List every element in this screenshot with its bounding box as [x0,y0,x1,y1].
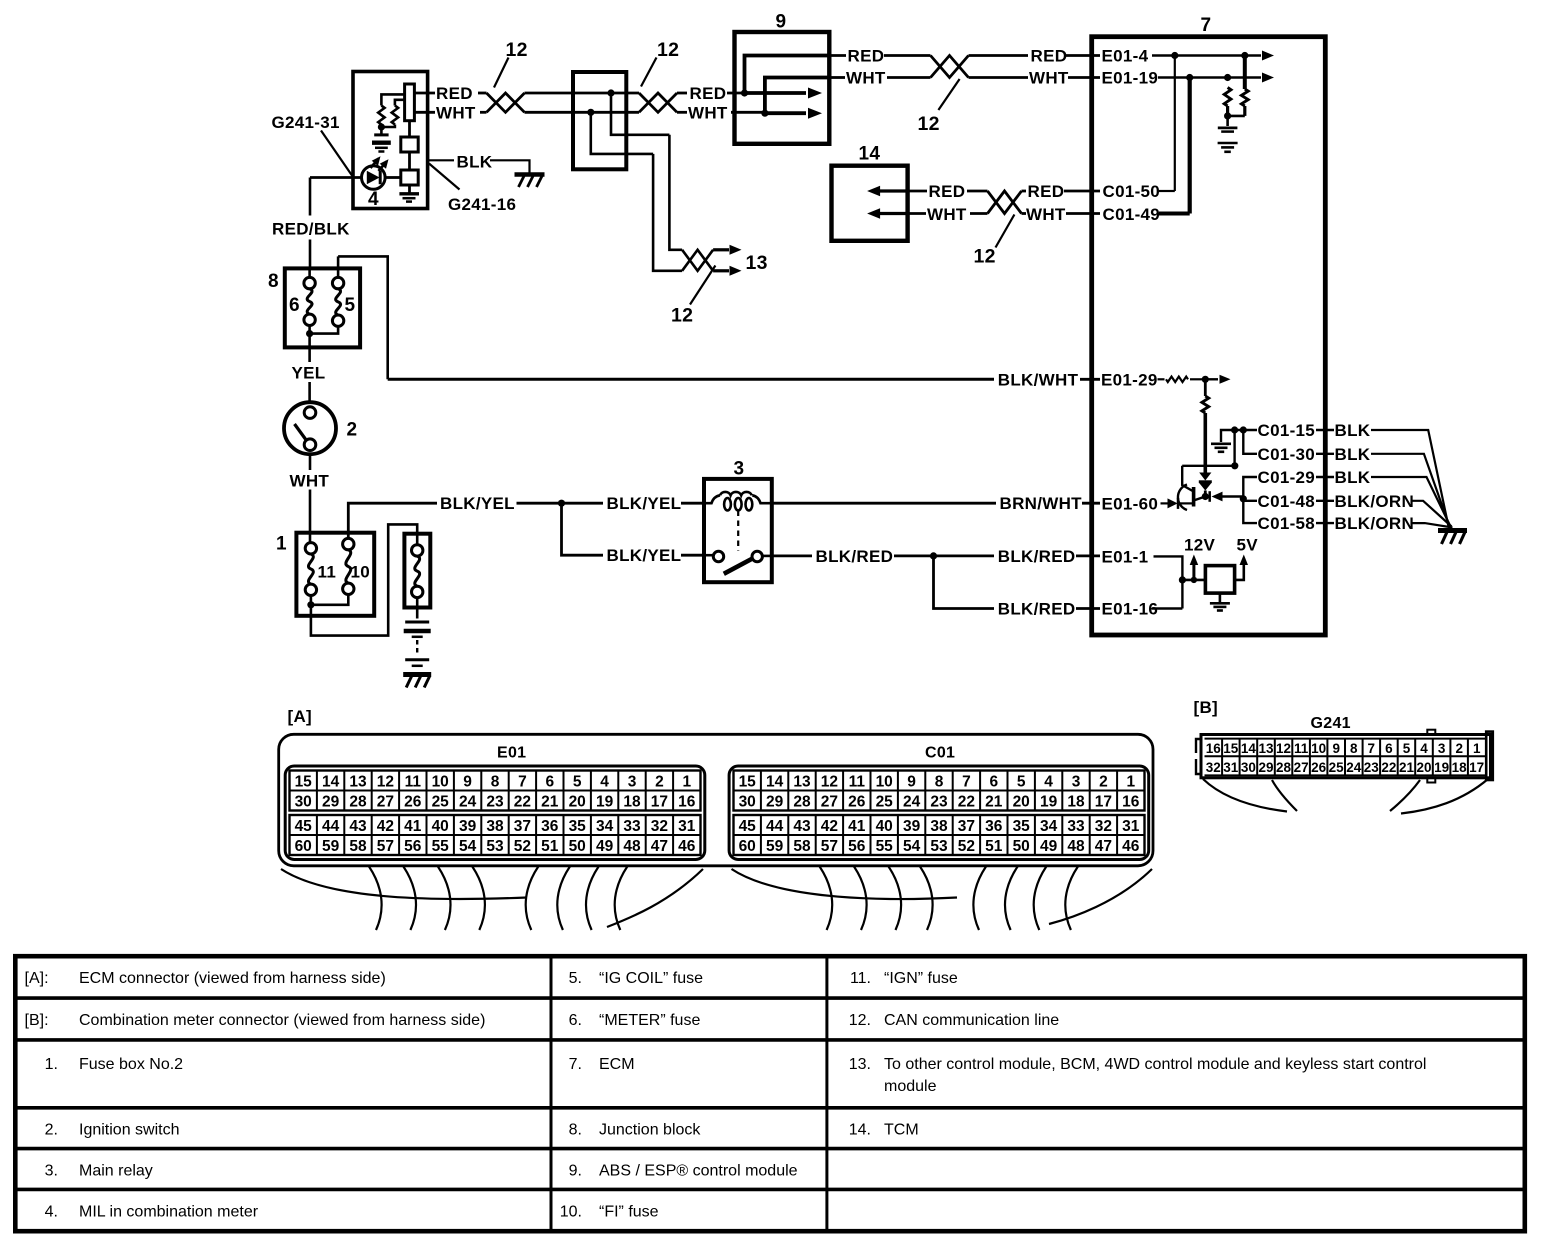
svg-text:BLK/WHT: BLK/WHT [998,370,1079,389]
wire LED to square [385,176,401,179]
wire E01-19 internal [1158,74,1261,81]
resistor meter R-right [392,106,398,125]
svg-text:51: 51 [541,838,559,855]
fuse 10 [343,538,354,594]
svg-text:ECM: ECM [599,1056,635,1073]
ground chassis fuse box [403,675,431,688]
diode above transistor [1199,473,1212,497]
wire bar to lamp resistor squares [408,121,411,137]
wire E01-4 to C01-50 [1174,56,1176,192]
label G241-16 [448,195,516,214]
wire WHT meter to twist [480,111,487,114]
wire RED/BLK [309,178,312,269]
svg-text:RED: RED [436,84,473,103]
svg-text:WHT: WHT [688,103,728,122]
svg-text:13: 13 [793,774,811,791]
wire junction to twist 13 upper [611,93,669,135]
svg-text:2: 2 [655,774,664,791]
wire BLK/RED from relay [772,555,812,558]
resistor CAN term right [1241,56,1248,116]
svg-text:19: 19 [596,794,614,811]
wire BLK/YEL from fuse 10 [348,503,437,539]
pointer G241-31 [321,131,352,176]
svg-text:[A]:: [A]: [25,970,49,987]
svg-text:49: 49 [1040,838,1058,855]
svg-text:3.: 3. [45,1163,58,1180]
pin C01-49 [1103,205,1161,224]
svg-text:“METER” fuse: “METER” fuse [599,1012,700,1029]
label BLK/RED 2 [998,547,1076,566]
label [B] [1194,698,1219,717]
wire RED TCM stub [908,190,927,193]
label G241-31 [272,113,340,132]
svg-text:BLK/YEL: BLK/YEL [607,494,682,513]
label C01 [925,745,955,762]
svg-text:52: 52 [514,838,531,855]
arrow 12V [1190,555,1199,584]
svg-text:17: 17 [1095,794,1112,811]
svg-text:32: 32 [651,818,668,835]
svg-text:24: 24 [903,794,921,811]
svg-text:“IGN” fuse: “IGN” fuse [884,970,958,987]
svg-text:36: 36 [985,818,1003,835]
svg-text:53: 53 [486,838,504,855]
svg-text:24: 24 [459,794,477,811]
svg-text:Combination meter connector (v: Combination meter connector (viewed from… [79,1012,485,1029]
wire E01-19 to C01-49 [1188,78,1192,214]
ECM connector outline [A] [279,734,1153,866]
svg-text:47: 47 [1095,838,1112,855]
svg-text:27: 27 [821,794,838,811]
svg-text:23: 23 [930,794,948,811]
svg-text:42: 42 [821,818,838,835]
pin C01-58 [1258,514,1316,533]
wire WHT inside meter [414,111,435,114]
ground meter lamp [399,194,419,202]
svg-text:12: 12 [377,774,394,791]
wire BLK/YEL branch [562,503,604,555]
label 9 [776,12,787,33]
wire junction to twist 13 lower [591,112,653,154]
svg-text:G241-16: G241-16 [448,195,516,214]
svg-text:28: 28 [793,794,811,811]
svg-text:E01-4: E01-4 [1102,47,1149,66]
label 7 [1201,15,1212,36]
svg-text:BLK/ORN: BLK/ORN [1335,514,1415,533]
junction block 8 [285,268,360,347]
ABS/ESP control module 9 [735,32,830,144]
wire BLK/RED mid [894,552,994,559]
svg-text:24: 24 [1346,760,1362,775]
svg-text:G241-31: G241-31 [272,113,340,132]
svg-text:21: 21 [985,794,1003,811]
label G241 [1311,715,1351,732]
svg-text:14.: 14. [849,1122,871,1139]
label 3 [734,459,745,480]
wire BLK/YEL mid [517,500,604,507]
wire E01-1 internal [1154,556,1187,608]
svg-text:14: 14 [1241,741,1257,756]
svg-text:20: 20 [569,794,586,811]
label fuse 11 [318,563,337,582]
svg-text:58: 58 [349,838,367,855]
svg-text:35: 35 [569,818,587,835]
svg-text:29: 29 [1258,760,1273,775]
label 12 (junction twist) [657,39,679,61]
svg-text:41: 41 [848,818,866,835]
svg-text:G241: G241 [1311,715,1351,732]
svg-text:E01-60: E01-60 [1102,495,1159,514]
svg-text:C01-29: C01-29 [1258,468,1316,487]
svg-text:RED: RED [848,47,885,66]
wire fuse outputs join [306,325,338,337]
svg-text:33: 33 [1067,818,1085,835]
svg-text:WHT: WHT [1026,205,1066,224]
svg-text:52: 52 [958,838,975,855]
battery / ground stack [404,622,431,666]
arrow WHT in ABS [765,108,822,119]
wire between squares [408,152,411,170]
svg-text:31: 31 [1122,818,1140,835]
pointer 12 (meter twist) [494,58,509,88]
svg-text:11: 11 [405,774,422,791]
svg-text:10.: 10. [560,1204,582,1221]
svg-text:5: 5 [345,295,356,316]
wire emitter [1202,493,1210,500]
arrow to 13 upper [713,245,741,255]
svg-text:10: 10 [1311,741,1326,756]
svg-text:26: 26 [848,794,866,811]
svg-text:C01-49: C01-49 [1103,205,1161,224]
svg-text:40: 40 [876,818,893,835]
pin C01-48 [1258,492,1316,511]
svg-text:45: 45 [295,818,313,835]
svg-text:7: 7 [962,774,971,791]
wire WHT TCM stub [908,212,926,215]
svg-text:46: 46 [678,838,696,855]
label 4 [368,189,379,210]
svg-text:Ignition switch: Ignition switch [79,1122,180,1139]
svg-text:BLK/YEL: BLK/YEL [440,494,515,513]
label RED (before ABS) [690,84,727,103]
stub C01-58 / label BLK/ORN [1316,514,1414,533]
resistor square lower [401,170,418,185]
svg-text:25: 25 [432,794,450,811]
svg-text:17: 17 [1469,760,1484,775]
wire BRN/WHT [772,502,996,505]
pin E01-16 [1102,600,1159,619]
svg-text:E01-16: E01-16 [1102,600,1159,619]
label 12V [1184,536,1216,555]
diode base E01-60 [1161,498,1194,509]
svg-text:56: 56 [404,838,422,855]
svg-text:13: 13 [349,774,367,791]
resistor E01-29 inline [1158,377,1206,382]
CAN twist 12 (junction side) [639,93,687,112]
label RED (ECM side top) [1031,47,1068,66]
wire resistor join [1224,112,1245,119]
node WHT junction [587,109,594,116]
label YEL [292,363,326,382]
svg-text:2.: 2. [45,1122,58,1139]
svg-text:MIL in combination meter: MIL in combination meter [79,1204,259,1221]
fuse 6 [304,268,315,325]
svg-text:12: 12 [1276,741,1291,756]
ground meter internal [372,135,391,152]
svg-text:9: 9 [776,12,787,33]
svg-text:“IG COIL” fuse: “IG COIL” fuse [599,970,703,987]
label fuse 10 [351,563,371,582]
svg-text:57: 57 [821,838,838,855]
svg-text:44: 44 [322,818,340,835]
label 13 [746,252,768,274]
svg-text:23: 23 [1364,760,1380,775]
svg-text:6: 6 [989,774,998,791]
svg-text:BLK/YEL: BLK/YEL [607,546,682,565]
svg-text:8: 8 [1350,741,1358,756]
svg-text:10: 10 [876,774,893,791]
wire aux fuse to battery [416,597,419,618]
svg-text:C01-48: C01-48 [1258,492,1316,511]
aux fuse box [404,534,430,608]
stub C01-48 / label BLK/ORN [1316,492,1414,511]
label WHT meter [436,103,476,122]
pin E01-19 [1102,69,1159,88]
svg-text:5.: 5. [569,970,582,987]
svg-text:37: 37 [958,818,975,835]
svg-text:44: 44 [766,818,784,835]
pin C01-30 [1258,445,1316,464]
svg-text:1.: 1. [45,1056,58,1073]
svg-text:11: 11 [318,563,337,582]
pin E01-29 [1101,370,1158,389]
wire WHT to E01-19 [1068,76,1100,79]
svg-text:8.: 8. [569,1122,582,1139]
label WHT ignition [290,471,330,490]
wire BLK-15 to ground [1371,430,1449,527]
svg-text:Fuse box No.2: Fuse box No.2 [79,1056,183,1073]
svg-text:58: 58 [793,838,811,855]
ground CAN filter [1218,143,1238,152]
label 12 (ABS-ECM twist) [918,113,940,135]
resistor meter R-left [378,106,384,125]
svg-text:48: 48 [1067,838,1085,855]
wire BLK/WHT long [388,378,994,381]
label RED (TCM-ECM) [1028,182,1065,201]
label BLK [428,153,530,173]
wire BLK/RED branch [934,556,995,609]
svg-text:50: 50 [1013,838,1030,855]
ignition switch 2 [284,402,336,454]
svg-text:43: 43 [349,818,367,835]
svg-text:E01: E01 [497,745,526,762]
svg-text:19: 19 [1040,794,1058,811]
label RED (after ABS) [848,47,885,66]
svg-text:51: 51 [985,838,1003,855]
wire BLK/YEL branch to relay [681,554,704,557]
label WHT (before ABS) [688,103,728,122]
pin E01-4 [1102,47,1149,66]
pointer G241-16 [429,164,460,190]
wire resistor junction [378,123,395,133]
svg-text:56: 56 [848,838,866,855]
svg-text:WHT: WHT [927,205,967,224]
svg-text:7: 7 [1368,741,1376,756]
svg-text:15: 15 [739,774,757,791]
pin C01-29 [1258,468,1316,487]
wire C01-49 link [1159,212,1190,216]
svg-text:C01-15: C01-15 [1258,421,1316,440]
pointer 12 (TCM twist) [996,215,1015,248]
svg-text:CAN communication line: CAN communication line [884,1012,1059,1029]
svg-text:40: 40 [432,818,449,835]
svg-text:BLK: BLK [1335,445,1371,464]
arrow RED in TCM [867,186,908,196]
resistor square upper [401,137,418,152]
svg-text:60: 60 [295,838,312,855]
pointer 12 (modules twist) [690,266,715,305]
svg-text:C01-50: C01-50 [1103,182,1161,201]
svg-text:6: 6 [289,295,300,316]
svg-text:E01-29: E01-29 [1101,370,1158,389]
svg-text:WHT: WHT [846,69,886,88]
svg-text:34: 34 [1040,818,1058,835]
label 2 [347,420,358,441]
svg-text:1: 1 [1473,741,1481,756]
resistor pullup [1202,379,1209,472]
svg-text:59: 59 [766,838,784,855]
MIL indicator LED [362,166,386,190]
svg-text:29: 29 [766,794,784,811]
pin C01-50 [1103,182,1161,201]
wire square to ground [408,185,411,193]
label BRN/WHT [1000,494,1083,513]
svg-text:49: 49 [596,838,614,855]
svg-text:5: 5 [1017,774,1026,791]
svg-text:4: 4 [600,774,609,791]
svg-text:22: 22 [514,794,531,811]
wire BLK/RED to E01-1 [1076,555,1100,558]
svg-text:WHT: WHT [1029,69,1069,88]
svg-text:8: 8 [491,774,500,791]
svg-text:13: 13 [746,252,768,274]
pin grid E01 (pins 1-60) [285,766,705,860]
svg-text:12: 12 [974,246,996,268]
svg-text:6: 6 [545,774,554,791]
svg-text:57: 57 [377,838,394,855]
svg-text:12: 12 [657,39,679,61]
transistor Q1 [1178,466,1205,510]
svg-text:9: 9 [463,774,472,791]
wire C01-30 link [1243,430,1257,454]
wire RED inside meter [414,92,435,95]
svg-text:RED: RED [929,182,966,201]
label 1 [276,534,287,555]
wire BLK/RED to E01-16 [1076,607,1100,610]
label 12 (TCM twist) [974,246,996,268]
node RED in ABS [741,89,748,96]
svg-text:20: 20 [1013,794,1030,811]
wire BLK-30 to ground [1371,454,1450,527]
wire to aux fuse [311,524,417,635]
svg-text:[B]: [B] [1194,698,1219,717]
wire C01-15 down [1233,430,1235,466]
svg-text:13: 13 [1258,741,1274,756]
ECM block 7 [1092,37,1326,635]
ground BLK G241-16 [515,175,545,188]
svg-text:12: 12 [671,305,693,327]
svg-text:29: 29 [322,794,340,811]
label 5V [1237,536,1259,555]
label BLK/YEL 2 [607,494,682,513]
LED light arrows [371,156,389,171]
wire WHT into ABS module [731,111,765,114]
svg-text:BLK/RED: BLK/RED [816,547,894,566]
wire fuse bottoms join [307,594,348,608]
label RED (TCM side) [929,182,966,201]
harness wires below G241 [1203,779,1488,814]
pointer 12 (ABS-ECM twist) [938,79,959,110]
label WHT (TCM side) [927,205,967,224]
svg-text:38: 38 [486,818,504,835]
label 12 (meter twist) [506,39,528,61]
svg-text:41: 41 [404,818,422,835]
svg-text:30: 30 [295,794,312,811]
svg-text:13.: 13. [849,1056,871,1073]
node E01-29 branch [1202,376,1209,383]
svg-text:BLK: BLK [457,153,493,172]
svg-text:31: 31 [678,818,696,835]
relay contacts [704,551,772,574]
svg-text:RED: RED [1031,47,1068,66]
wire RED to C01-50 [1064,190,1100,193]
svg-text:31: 31 [1223,760,1239,775]
svg-text:50: 50 [569,838,586,855]
ground C01-15 internal [1211,444,1231,452]
svg-text:BLK: BLK [1335,421,1371,440]
label BLK/YEL 3 [607,546,682,565]
wire RED into ABS module [727,92,745,95]
svg-text:7: 7 [1201,15,1212,36]
svg-text:12: 12 [821,774,838,791]
relay coil [704,492,772,510]
svg-text:14: 14 [766,774,784,791]
svg-text:3: 3 [1438,741,1446,756]
svg-text:WHT: WHT [436,103,476,122]
svg-text:18: 18 [623,794,641,811]
svg-text:[A]: [A] [288,707,313,726]
svg-text:34: 34 [596,818,614,835]
wire C01 ground rail [1240,477,1257,523]
svg-text:54: 54 [459,838,477,855]
svg-text:38: 38 [930,818,948,835]
wire E01-16 internal [1152,607,1182,609]
ground regulator [1210,593,1230,610]
label BLK/RED 3 [998,600,1076,619]
fuse box 1 [296,533,374,616]
svg-text:54: 54 [903,838,921,855]
svg-text:2: 2 [1099,774,1108,791]
svg-text:53: 53 [930,838,948,855]
svg-text:7: 7 [518,774,527,791]
svg-text:27: 27 [377,794,394,811]
wire fuse5 to BLK/WHT run [338,256,388,379]
wire regulator input [1182,579,1205,582]
wire RED to E01-4 [1066,54,1100,57]
svg-text:RED: RED [1028,182,1065,201]
wire BLK/WHT to E01-29 [1080,378,1100,381]
svg-text:BLK/RED: BLK/RED [998,600,1076,619]
